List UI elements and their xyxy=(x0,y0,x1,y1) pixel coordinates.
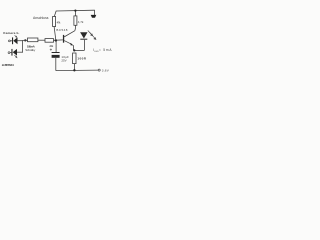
junction node (base node) xyxy=(55,39,57,41)
terminal K2 xyxy=(8,52,10,54)
svg-text:4,7k: 4,7k xyxy=(78,20,84,24)
top rail xyxy=(56,9,95,12)
wire xyxy=(55,41,57,53)
svg-text:≈ 5mA: ≈ 5mA xyxy=(99,48,112,52)
wire xyxy=(22,39,27,41)
svg-text:25V: 25V xyxy=(61,59,66,63)
svg-text:47k: 47k xyxy=(57,20,61,24)
svg-text:BC548: BC548 xyxy=(56,28,67,32)
transistor Q1 base bar xyxy=(63,35,64,43)
LED arrows xyxy=(88,31,96,40)
junction dot (top rail / R4) xyxy=(74,10,76,12)
svg-text:22k: 22k xyxy=(49,44,53,48)
junction dot (emitter node / R5) xyxy=(73,49,75,51)
light arrows D2 xyxy=(14,55,17,58)
resistor R5 (emitter) xyxy=(73,53,76,64)
wire emitter down xyxy=(72,45,74,50)
wire collector to R4 xyxy=(74,25,77,30)
wire xyxy=(55,58,57,71)
junction dot xyxy=(24,39,26,41)
wire xyxy=(74,11,76,16)
photodiode D2 (BPW34) xyxy=(11,49,17,56)
wire R5 to ground xyxy=(73,64,75,71)
transistor Q1 emitter stroke xyxy=(64,41,72,45)
wire xyxy=(10,51,12,53)
light arrows D1 xyxy=(15,35,17,37)
terminal K1 xyxy=(9,40,11,42)
svg-text:100R: 100R xyxy=(77,56,86,60)
wire xyxy=(54,11,56,17)
transistor Q1 collector stroke xyxy=(64,31,75,37)
svg-text:2x BPW34: 2x BPW34 xyxy=(2,63,14,67)
wire (top rail right drop) xyxy=(93,10,95,15)
transistor Q1 emitter arrow xyxy=(71,43,74,46)
wire (series connector D1/D2) xyxy=(21,40,23,52)
wire xyxy=(18,40,23,42)
wire emitter node xyxy=(73,49,84,51)
LED D3 xyxy=(80,32,87,39)
ground rail xyxy=(56,69,98,72)
svg-text:Kamera b.: Kamera b. xyxy=(3,31,19,35)
svg-text:Anschluss: Anschluss xyxy=(33,16,49,20)
svg-text:3,6V: 3,6V xyxy=(102,69,110,73)
wire xyxy=(38,39,45,41)
resistor R4 xyxy=(74,16,77,25)
svg-text:Schottky: Schottky xyxy=(25,48,36,52)
photodiode D1 (BPW34) xyxy=(12,37,18,44)
resistor R2 xyxy=(45,39,54,43)
resistor R1 xyxy=(28,38,38,42)
wire xyxy=(54,27,56,41)
capacitor C1 plus sign xyxy=(50,49,52,51)
junction dot (ground rail) xyxy=(73,69,75,71)
wire xyxy=(54,39,63,41)
connector blob (down trapezoid) xyxy=(91,15,97,18)
capacitor C1 xyxy=(52,52,60,58)
wire LED cathode xyxy=(83,40,85,51)
resistor R3 xyxy=(53,17,56,27)
terminal 3.6V xyxy=(98,69,100,71)
wire xyxy=(10,40,12,42)
